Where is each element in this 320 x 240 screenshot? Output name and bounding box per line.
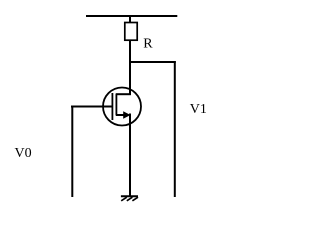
svg-text:V0: V0 [15, 146, 32, 161]
svg-text:V1: V1 [190, 102, 207, 117]
svg-text:R: R [143, 37, 153, 52]
